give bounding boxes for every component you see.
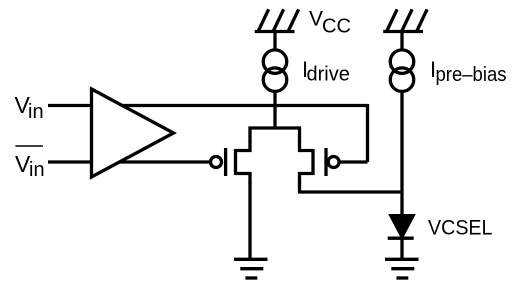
power symbol VCC (right) [383,9,427,48]
label Vin-bar [15,146,45,181]
power symbol VCC (left) [255,9,299,48]
ground (right) [385,259,419,278]
svg-text:VCSEL: VCSEL [428,217,493,240]
svg-text:in: in [29,159,45,181]
buffer U1 [92,89,174,177]
diode D1 VCSEL [388,215,415,259]
transistor Q2 (PMOS right) [300,140,340,184]
label Idrive [302,57,350,86]
svg-text:V: V [309,7,323,30]
svg-text:pre–bias: pre–bias [436,64,507,86]
wire top input Vin to feedback corner [48,104,368,107]
wire bottom input Vin-bar to Q1 gate [48,160,209,163]
wire feedback vertical (top output to Q2 gate net) [366,104,369,162]
svg-text:drive: drive [307,64,350,86]
label VCC [309,7,351,37]
svg-text:CC: CC [322,16,351,38]
transistor Q1 (PMOS left) [211,140,251,184]
wire Idrive output to common source rail [273,93,276,130]
wire Ipre-bias to VCSEL anode [400,93,403,215]
label Ipre-bias [430,57,507,86]
wire Q2 drain to VCSEL anode node [300,182,403,192]
wire Q1 drain to ground [248,182,251,258]
svg-text:in: in [28,101,44,123]
current source Idrive [263,50,287,92]
ground (left) [234,259,268,278]
current source Ipre-bias [390,50,414,92]
label Vin [15,92,44,123]
wire feedback horizontal into Q2 gate [341,160,368,163]
wire common source rail [250,128,300,142]
